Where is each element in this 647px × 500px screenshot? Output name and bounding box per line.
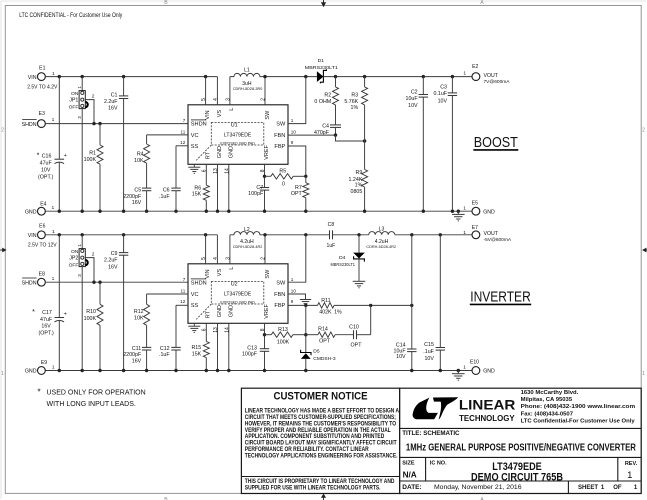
svg-text:VOUT: VOUT: [484, 73, 499, 79]
svg-text:E3: E3: [39, 111, 45, 117]
svg-text:SHEET: SHEET: [578, 485, 598, 491]
svg-text:L: L: [229, 267, 235, 270]
svg-text:SW: SW: [276, 122, 286, 128]
svg-text:*: *: [32, 307, 35, 316]
svg-text:JP1: JP1: [69, 98, 78, 104]
svg-text:L2: L2: [244, 227, 250, 233]
zone arrow left: [2, 248, 6, 253]
resistor R3: [364, 77, 366, 87]
svg-text:E7: E7: [472, 225, 478, 231]
svg-text:0: 0: [282, 182, 285, 188]
svg-text:0 OHM: 0 OHM: [314, 99, 331, 105]
svg-text:2.5V TO 12V: 2.5V TO 12V: [28, 243, 57, 249]
node GND boost: [58, 210, 61, 213]
svg-text:4.2uH: 4.2uH: [375, 239, 389, 245]
svg-text:1MHz GENERAL PURPOSE POSITIVE/: 1MHz GENERAL PURPOSE POSITIVE/NEGATIVE C…: [406, 442, 636, 453]
svg-text:VREF: VREF: [264, 303, 270, 318]
diode D1 MBRS230LT1: [317, 71, 324, 82]
svg-text:A: A: [480, 0, 484, 6]
svg-text:N/A: N/A: [403, 470, 417, 479]
svg-text:2: 2: [261, 98, 267, 101]
svg-text:14: 14: [224, 168, 230, 174]
svg-text:1: 1: [52, 71, 55, 77]
wire U1 pin2 SW: [264, 77, 266, 105]
wire JP1 pin2 to SHDN: [85, 100, 94, 124]
zone arrow right: [642, 248, 647, 253]
svg-text:E8: E8: [39, 272, 45, 278]
svg-text:L: L: [229, 108, 235, 111]
svg-text:IC NO.: IC NO.: [430, 460, 447, 466]
svg-text:R14: R14: [318, 327, 328, 333]
svg-text:FBP: FBP: [274, 303, 285, 309]
node VINinv-C17: [58, 233, 61, 236]
wire VIN rail boost: [45, 76, 217, 78]
svg-text:R13: R13: [278, 327, 288, 333]
capacitor C3: [451, 77, 453, 93]
svg-text:10K: 10K: [134, 158, 144, 164]
terminal E8 SHDN: [38, 278, 46, 286]
wire U2 pin4 VS: [216, 235, 218, 264]
svg-text:9: 9: [291, 140, 294, 145]
capacitor C8: [329, 230, 331, 239]
svg-text:7: 7: [183, 118, 186, 123]
capacitor C9: [123, 235, 125, 253]
node GND inverter: [216, 369, 219, 372]
svg-text:2: 2: [92, 251, 95, 257]
wire SW node rail: [265, 76, 317, 78]
svg-text:C3: C3: [440, 85, 447, 91]
node GND inverter: [98, 369, 101, 372]
svg-text:-5V@600mA: -5V@600mA: [484, 237, 512, 243]
node VINinv-JP2: [81, 233, 84, 236]
resistor R9: [362, 169, 368, 187]
svg-text:10V: 10V: [41, 168, 51, 174]
node GND boost: [227, 210, 230, 213]
svg-text:100K: 100K: [84, 316, 97, 322]
node GND inverter: [174, 369, 177, 372]
node GND boost: [363, 210, 366, 213]
node VIN-JP1: [81, 75, 84, 78]
svg-text:10V: 10V: [438, 98, 448, 104]
svg-text:1: 1: [52, 205, 55, 211]
svg-text:16V: 16V: [108, 264, 118, 270]
svg-text:16V: 16V: [132, 359, 142, 365]
wire U1 pin3 L: [229, 77, 231, 105]
svg-text:2: 2: [92, 93, 95, 99]
svg-text:INVERTER: INVERTER: [470, 289, 531, 306]
node GND inverter: [439, 369, 442, 372]
node FBP-D5: [304, 304, 307, 307]
svg-text:R11: R11: [321, 298, 330, 304]
svg-text:Monday, November 21, 2016: Monday, November 21, 2016: [434, 484, 522, 491]
wire U2 pin14 GND: [228, 323, 230, 370]
svg-text:1uF: 1uF: [327, 243, 336, 249]
svg-text:2.2uF: 2.2uF: [104, 99, 118, 105]
svg-text:GND: GND: [229, 305, 235, 317]
node VOUT-C3: [451, 75, 454, 78]
node GND inverter: [58, 369, 61, 372]
terminal E1 VIN: [38, 73, 46, 81]
node VOUT-R3: [363, 75, 366, 78]
svg-text:MBRS230LT1: MBRS230LT1: [331, 262, 356, 267]
svg-text:VIN: VIN: [28, 75, 37, 81]
svg-text:LTC CONFIDENTIAL - For Custome: LTC CONFIDENTIAL - For Customer Use Only: [19, 12, 123, 19]
capacitor C6 on SS: [176, 145, 188, 147]
svg-text:100K: 100K: [277, 340, 290, 346]
svg-text:RT: RT: [206, 310, 212, 318]
capacitor C4: [335, 105, 337, 125]
svg-text:3: 3: [225, 98, 231, 101]
capacitor C2: [422, 77, 424, 95]
svg-text:R15: R15: [191, 345, 201, 351]
svg-text:12: 12: [180, 299, 186, 304]
resistor R5 0: [265, 175, 271, 177]
node GND boost: [174, 210, 177, 213]
svg-text:C17: C17: [42, 310, 52, 316]
svg-text:C6: C6: [163, 188, 170, 194]
wire U2 pin9 FBP: [288, 304, 318, 306]
diode D4 MBRS230LT1: [358, 235, 360, 253]
svg-text:15K: 15K: [192, 192, 202, 198]
svg-text:C10: C10: [349, 325, 359, 331]
svg-text:R5: R5: [279, 168, 286, 174]
resistor R12 on VC: [147, 293, 188, 295]
capacitor C13: [260, 348, 269, 350]
wire U2 pin13 GND: [217, 323, 219, 370]
svg-text:SS: SS: [191, 144, 199, 150]
svg-text:VOUT: VOUT: [484, 231, 499, 237]
node SWinv-L2: [263, 233, 266, 236]
node GND boost: [451, 210, 454, 213]
node SWinv-pin1: [304, 233, 307, 236]
svg-text:JP2: JP2: [69, 256, 78, 262]
node GND inverter: [205, 369, 208, 372]
node GND boost: [122, 210, 125, 213]
capacitor C17: [58, 235, 60, 317]
wire VIN rail inverter: [45, 234, 217, 236]
svg-text:GND: GND: [217, 305, 223, 317]
node GND inverter: [263, 369, 266, 372]
svg-text:Fax: (408)434-0507: Fax: (408)434-0507: [521, 411, 574, 417]
node SW-pin1: [304, 75, 307, 78]
svg-text:R12: R12: [134, 309, 144, 315]
svg-text:DEMO CIRCUIT 765B: DEMO CIRCUIT 765B: [471, 471, 563, 483]
svg-text:1: 1: [1, 371, 4, 377]
svg-text:GND: GND: [25, 209, 37, 215]
wire JP1 pin3 to GND: [81, 109, 83, 212]
svg-text:E2: E2: [472, 64, 478, 70]
svg-text:.1uF: .1uF: [159, 194, 170, 200]
svg-text:SHDN: SHDN: [191, 122, 207, 128]
svg-text:FBP: FBP: [274, 144, 285, 150]
svg-text:5: 5: [201, 98, 207, 101]
svg-text:SHDN: SHDN: [22, 280, 37, 286]
node GND inverter: [227, 369, 230, 372]
svg-text:100K: 100K: [84, 157, 97, 163]
svg-text:10V: 10V: [396, 354, 406, 360]
wire C8 to D4 node: [333, 234, 369, 236]
svg-text:1: 1: [463, 206, 466, 212]
node GND inverter: [145, 369, 148, 372]
svg-text:ON: ON: [71, 91, 79, 97]
svg-text:11: 11: [181, 129, 186, 134]
svg-text:U1: U1: [231, 122, 238, 128]
svg-text:+: +: [64, 153, 67, 159]
svg-text:C9: C9: [111, 251, 118, 257]
svg-text:C16: C16: [42, 154, 52, 160]
svg-text:100pF: 100pF: [242, 351, 258, 357]
svg-text:Milpitas, CA 95035: Milpitas, CA 95035: [521, 397, 573, 403]
resistor R1: [99, 124, 101, 145]
svg-text:1: 1: [52, 364, 55, 370]
capacitor C1: [123, 77, 125, 96]
svg-text:RT: RT: [206, 151, 212, 159]
svg-text:.1uF: .1uF: [159, 352, 170, 358]
svg-text:4: 4: [213, 98, 219, 101]
capacitor C5: [142, 187, 151, 189]
svg-text:2.5V TO 4.2V: 2.5V TO 4.2V: [27, 84, 58, 90]
svg-text:USED ONLY FOR OPERATION: USED ONLY FOR OPERATION: [47, 389, 146, 396]
svg-text:TECHNOLOGY APPLICATIONS ENGINE: TECHNOLOGY APPLICATIONS ENGINEERING FOR …: [245, 453, 398, 460]
svg-text:L1: L1: [244, 68, 250, 74]
svg-text:1: 1: [52, 229, 55, 235]
svg-text:SW: SW: [265, 110, 271, 120]
svg-text:1: 1: [627, 470, 632, 481]
svg-text:1: 1: [463, 365, 466, 371]
svg-text:10V: 10V: [424, 356, 434, 362]
svg-text:SCHEMATIC: SCHEMATIC: [423, 430, 460, 437]
svg-text:C15: C15: [424, 342, 434, 348]
wire FBN to C4: [288, 134, 336, 136]
svg-text:Phone: (408)432-1900 www.line: Phone: (408)432-1900 www.linear.com: [521, 404, 636, 410]
wire U1 pin14 GND: [228, 164, 230, 211]
svg-text:DATE:: DATE:: [402, 484, 421, 491]
svg-text:*: *: [37, 151, 40, 160]
wire FBN jog to R3: [336, 135, 365, 141]
svg-text:LINEAR: LINEAR: [459, 398, 516, 413]
terminal E10 GND: [472, 367, 480, 375]
terminal E7 VOUT: [472, 231, 480, 239]
diode D5 CMDSH-3: [305, 305, 307, 352]
svg-text:C4: C4: [322, 124, 329, 130]
node GND inverter: [457, 369, 460, 372]
svg-text:4.2uH: 4.2uH: [240, 239, 254, 245]
svg-text:10uF: 10uF: [406, 96, 419, 102]
node VINinv-C9: [122, 233, 125, 236]
svg-text:47uF: 47uF: [40, 317, 53, 323]
svg-text:VIN: VIN: [205, 110, 211, 119]
svg-text:15K: 15K: [192, 351, 202, 357]
svg-text:WITH LONG INPUT LEADS.: WITH LONG INPUT LEADS.: [47, 401, 136, 408]
svg-text:1: 1: [463, 230, 466, 236]
node GND boost: [304, 210, 307, 213]
svg-text:1%: 1%: [355, 182, 363, 188]
svg-text:OPT: OPT: [291, 191, 303, 197]
svg-text:CUSTOMER NOTICE: CUSTOMER NOTICE: [274, 390, 368, 402]
svg-text:7V@600mA: 7V@600mA: [484, 79, 511, 85]
svg-text:C2: C2: [411, 90, 418, 96]
svg-text:LT3479EDE: LT3479EDE: [224, 291, 252, 297]
title block customer notice box: [241, 388, 399, 493]
svg-text:(OPT.): (OPT.): [38, 331, 54, 337]
inductor L2: [230, 232, 265, 235]
wire JP2 pin3 to GND: [81, 267, 83, 371]
svg-text:2.2uF: 2.2uF: [104, 258, 118, 264]
svg-text:8: 8: [260, 169, 266, 172]
svg-text:GND: GND: [229, 146, 235, 158]
svg-text:CMDSH-3: CMDSH-3: [313, 356, 336, 362]
ground symbol inverter rail: [457, 371, 459, 374]
svg-text:13: 13: [213, 327, 219, 333]
svg-text:D5: D5: [313, 348, 320, 354]
svg-text:L3: L3: [379, 227, 385, 233]
svg-text:1: 1: [291, 118, 294, 123]
ground U2 exposed pad: [193, 323, 195, 326]
node VREF-R5: [263, 175, 266, 178]
wire SHDN rail inverter: [45, 281, 188, 283]
node R11-C14: [410, 304, 413, 307]
svg-text:C11: C11: [132, 346, 141, 352]
jumper JP1: [81, 77, 83, 91]
svg-text:SW: SW: [276, 281, 286, 287]
svg-text:E9: E9: [41, 360, 47, 366]
svg-text:D4: D4: [339, 255, 346, 261]
svg-text:E5: E5: [472, 201, 478, 207]
node FBP-R5-R7: [304, 175, 307, 178]
title block main box: [400, 388, 642, 493]
ground symbol boost rail: [457, 211, 459, 214]
node GND inverter: [410, 369, 413, 372]
terminal E3 SHDN: [38, 120, 46, 128]
zone arrow bottom: [321, 494, 326, 498]
terminal E5 GND: [472, 207, 480, 215]
svg-text:E4: E4: [40, 201, 46, 207]
wire U1 pin13 GND: [217, 164, 219, 211]
svg-text:OFF: OFF: [69, 263, 79, 269]
svg-text:VS: VS: [217, 269, 223, 277]
svg-text:1%: 1%: [334, 309, 342, 315]
node GND boost: [457, 210, 460, 213]
wire U2 pin10 FBN to ground: [288, 294, 306, 299]
svg-text:3: 3: [225, 257, 231, 260]
node SHDNinv-JP2: [92, 281, 95, 284]
svg-text:C5: C5: [134, 188, 141, 194]
svg-text:MBRS230LT1: MBRS230LT1: [305, 65, 339, 70]
wire U1 pin9 FBP: [288, 146, 306, 176]
svg-text:SIZE: SIZE: [402, 460, 415, 466]
wire JP2 pin2 to SHDN: [85, 258, 94, 283]
svg-text:1: 1: [291, 277, 294, 282]
resistor R4 on VC: [147, 134, 188, 136]
svg-text:1: 1: [463, 71, 466, 77]
frame outer faint edge: [1, 0, 646, 2]
svg-text:R4: R4: [137, 152, 144, 158]
inductor L3: [369, 232, 395, 235]
wire U1 pin4 VS: [216, 77, 218, 105]
logo Linear Technology mark: [413, 398, 438, 420]
svg-text:ON: ON: [71, 249, 79, 255]
svg-text:0805: 0805: [351, 189, 363, 195]
node VIN-C1: [122, 75, 125, 78]
svg-text:R2: R2: [324, 93, 331, 99]
svg-text:2200pF: 2200pF: [123, 352, 142, 358]
wire U2 pin5 VIN: [205, 235, 207, 264]
svg-text:VC: VC: [191, 133, 199, 139]
svg-text:GND: GND: [483, 369, 495, 375]
svg-text:FBN: FBN: [274, 133, 285, 139]
svg-text:13: 13: [213, 168, 219, 174]
svg-text:CDRH-5D28-4R2: CDRH-5D28-4R2: [233, 245, 263, 249]
svg-text:U2: U2: [231, 281, 238, 287]
node GND boost: [145, 210, 148, 213]
ground D4: [353, 280, 366, 282]
terminal E9 GND: [38, 367, 46, 375]
node R11-C10: [369, 304, 372, 307]
svg-text:TITLE:: TITLE:: [402, 430, 421, 437]
svg-text:14: 14: [224, 327, 230, 333]
terminal E6 VIN: [38, 231, 46, 239]
resistor R13 100K: [264, 323, 266, 348]
wire GND rail inverter: [45, 370, 472, 372]
node GND inverter: [122, 369, 125, 372]
terminal E4 GND: [38, 207, 46, 215]
svg-text:16V: 16V: [132, 200, 142, 206]
svg-text:LT3479EDE: LT3479EDE: [224, 132, 252, 138]
node VIN-pin5: [204, 75, 207, 78]
svg-text:TECHNOLOGY: TECHNOLOGY: [459, 414, 515, 423]
svg-text:SHDN: SHDN: [22, 122, 37, 128]
svg-text:CDRH-5D28-4R2: CDRH-5D28-4R2: [366, 245, 396, 249]
svg-text:2: 2: [1, 128, 4, 134]
svg-text:SS: SS: [191, 303, 199, 309]
svg-text:1: 1: [52, 117, 55, 123]
node GND boost: [98, 210, 101, 213]
svg-text:SUPPLIED FOR USE WITH LINEAR T: SUPPLIED FOR USE WITH LINEAR TECHNOLOGY …: [245, 485, 381, 492]
svg-text:9: 9: [291, 299, 294, 304]
svg-text:12: 12: [180, 140, 186, 145]
op-amp U1 LT3479EDE: [188, 105, 288, 165]
svg-text:2: 2: [642, 128, 645, 134]
svg-text:SW: SW: [265, 269, 271, 279]
resistor R7 OPT: [303, 183, 309, 198]
svg-text:C8: C8: [328, 222, 335, 228]
capacitor C16: [58, 77, 60, 159]
svg-text:C12: C12: [160, 346, 170, 352]
wire GND rail boost: [45, 210, 472, 212]
wire U2 pin2 SW: [264, 235, 266, 264]
svg-text:OFF: OFF: [69, 105, 79, 111]
customer notice body: [245, 408, 400, 460]
wire U2 pin1 SW right: [288, 235, 306, 282]
svg-text:FBN: FBN: [274, 292, 285, 298]
capacitor C15: [439, 235, 441, 348]
svg-text:B: B: [164, 0, 168, 6]
svg-text:R9: R9: [356, 170, 363, 176]
svg-text:REV.: REV.: [625, 461, 638, 467]
wire VOUT rail boost: [323, 76, 472, 78]
capacitor C11: [142, 346, 151, 348]
svg-text:2: 2: [261, 257, 267, 260]
resistor R2 0 OHM: [335, 77, 337, 87]
svg-text:1630 McCarthy Blvd.: 1630 McCarthy Blvd.: [521, 390, 579, 396]
wire U1 pin1 SW right: [288, 77, 306, 124]
node SHDN-JP1: [92, 122, 95, 125]
svg-text:R10: R10: [86, 309, 96, 315]
node GND boost: [216, 210, 219, 213]
svg-text:R3: R3: [351, 93, 358, 99]
node VIN-C16: [58, 75, 61, 78]
zone arrow top: [321, 2, 326, 7]
